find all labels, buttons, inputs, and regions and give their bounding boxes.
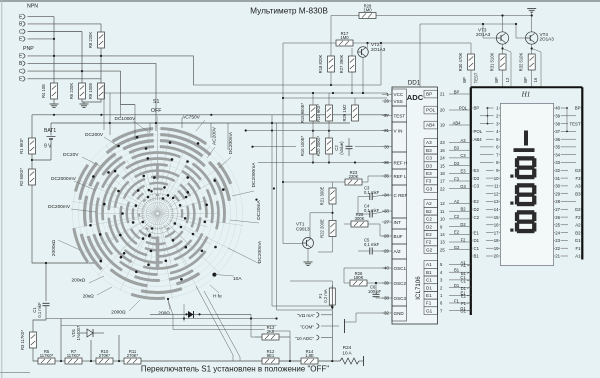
svg-text:D1: D1 bbox=[454, 283, 460, 288]
border frame left bbox=[1, 0, 3, 378]
wire C1 bottom bbox=[33, 306, 46, 332]
border frame top bbox=[0, 0, 600, 2]
svg-text:B1: B1 bbox=[454, 268, 460, 273]
svg-text:19: 19 bbox=[440, 123, 445, 128]
resistor R7 bbox=[65, 358, 82, 364]
wire F1 bottom bbox=[331, 305, 333, 361]
display H1 outline bbox=[471, 86, 583, 88]
svg-text:D2: D2 bbox=[460, 222, 466, 227]
wire B vertical bbox=[100, 24, 102, 32]
wire ref36 bbox=[258, 162, 387, 164]
svg-text:B3: B3 bbox=[426, 148, 432, 153]
svg-text:INT: INT bbox=[394, 220, 402, 225]
svg-text:E1: E1 bbox=[474, 230, 480, 235]
wire mid mids bbox=[312, 121, 314, 138]
svg-text:35: 35 bbox=[555, 145, 560, 150]
svg-text:R32 510K: R32 510K bbox=[519, 52, 524, 71]
svg-text:E2: E2 bbox=[426, 232, 432, 237]
svg-text:H1: H1 bbox=[521, 91, 531, 99]
svg-text:F3: F3 bbox=[426, 179, 432, 184]
resistor R28 bbox=[359, 13, 376, 19]
svg-text:BP: BP bbox=[523, 77, 528, 83]
svg-text:POL: POL bbox=[474, 129, 483, 134]
svg-text:D3: D3 bbox=[474, 176, 480, 181]
svg-text:E3: E3 bbox=[426, 171, 432, 176]
svg-text:16: 16 bbox=[440, 148, 445, 153]
svg-text:A3: A3 bbox=[460, 138, 466, 143]
svg-text:F2: F2 bbox=[575, 215, 581, 220]
svg-text:G3: G3 bbox=[575, 168, 581, 173]
svg-text:D3: D3 bbox=[426, 163, 432, 168]
resistor R32 bbox=[528, 54, 535, 70]
svg-text:VSS: VSS bbox=[394, 99, 403, 104]
svg-text:BAT1: BAT1 bbox=[44, 128, 56, 134]
svg-text:E2: E2 bbox=[454, 230, 460, 235]
svg-text:20: 20 bbox=[440, 108, 445, 113]
svg-text:A1: A1 bbox=[426, 262, 432, 267]
svg-text:C: C bbox=[19, 69, 23, 75]
svg-text:A1: A1 bbox=[461, 263, 467, 268]
svg-text:17: 17 bbox=[440, 179, 445, 184]
wire feeder bbox=[103, 85, 105, 130]
svg-text:TEST: TEST bbox=[394, 113, 406, 118]
svg-text:A3: A3 bbox=[426, 140, 432, 145]
svg-text:R31 510K: R31 510K bbox=[490, 52, 495, 71]
svg-text:F3: F3 bbox=[454, 176, 460, 181]
resistor R2 bbox=[29, 169, 36, 185]
svg-text:21: 21 bbox=[555, 254, 560, 259]
svg-text:R29 1M2: R29 1M2 bbox=[342, 104, 347, 122]
svg-text:G2: G2 bbox=[426, 247, 433, 252]
svg-text:R1 9K0*: R1 9K0* bbox=[19, 138, 24, 154]
resistor R5 bbox=[38, 358, 55, 364]
svg-text:R4 10E: R4 10E bbox=[41, 84, 46, 98]
svg-text:2K0: 2K0 bbox=[267, 329, 275, 334]
svg-text:2О1А3: 2О1А3 bbox=[476, 32, 491, 37]
svg-text:D1: D1 bbox=[426, 285, 432, 290]
svg-text:19: 19 bbox=[494, 246, 499, 251]
svg-text:31: 31 bbox=[555, 176, 560, 181]
wire feeder bbox=[210, 123, 212, 138]
wire bundle vertical bbox=[271, 115, 273, 306]
svg-text:DC200mA: DC200mA bbox=[257, 240, 263, 263]
svg-text:OSC2: OSC2 bbox=[394, 281, 407, 286]
svg-text:D1: D1 bbox=[474, 238, 480, 243]
svg-text:Переключатель S1 установлен в: Переключатель S1 установлен в положение … bbox=[141, 365, 329, 374]
svg-text:10: 10 bbox=[440, 217, 445, 222]
IC left column boxes bbox=[392, 89, 407, 106]
svg-text:TEST: TEST bbox=[570, 121, 581, 126]
svg-text:270K*: 270K* bbox=[99, 353, 111, 358]
svg-text:11: 11 bbox=[440, 209, 445, 214]
svg-text:BUF: BUF bbox=[394, 234, 403, 239]
svg-text:BP: BP bbox=[454, 89, 460, 94]
resistor R29 bbox=[352, 105, 359, 121]
svg-text:R30 470K: R30 470K bbox=[458, 52, 463, 71]
wire C vertical bbox=[81, 32, 83, 84]
svg-text:AC200V: AC200V bbox=[212, 126, 218, 145]
svg-text:B3: B3 bbox=[454, 146, 460, 151]
wire R11 right bbox=[141, 360, 262, 362]
wire R14-R24 bbox=[318, 360, 340, 362]
svg-text:DC20mA: DC20mA bbox=[256, 199, 262, 219]
switch track outlines bbox=[133, 189, 182, 238]
transistor VT2 bbox=[358, 47, 369, 58]
svg-text:15: 15 bbox=[440, 163, 445, 168]
svg-text:A2: A2 bbox=[575, 223, 581, 228]
svg-text:D3: D3 bbox=[454, 161, 460, 166]
svg-text:B2: B2 bbox=[575, 230, 581, 235]
svg-text:220K: 220K bbox=[349, 174, 359, 179]
svg-text:1M0: 1M0 bbox=[340, 35, 349, 40]
resistor R15 bbox=[310, 105, 317, 121]
wire R22 bottom bbox=[318, 237, 333, 253]
svg-text:S1: S1 bbox=[153, 99, 159, 105]
svg-text:36: 36 bbox=[555, 137, 560, 142]
border frame bottom stub bbox=[0, 372, 30, 374]
svg-text:13: 13 bbox=[494, 199, 499, 204]
wire R31 bottom bbox=[502, 70, 504, 87]
wire feeder bbox=[181, 118, 183, 128]
wire rail y85 bbox=[194, 84, 382, 86]
resistor R6 bbox=[79, 83, 86, 99]
svg-text:38: 38 bbox=[555, 121, 560, 126]
svg-text:G1: G1 bbox=[426, 308, 433, 313]
wire R17 row bbox=[283, 42, 336, 44]
wire pin12 drop bbox=[503, 49, 512, 88]
svg-text:(Value): (Value) bbox=[339, 141, 344, 155]
svg-text:E3: E3 bbox=[460, 169, 466, 174]
wire vin30 bbox=[355, 146, 387, 148]
wire E common vertical bbox=[53, 17, 55, 83]
svg-text:117K0*: 117K0* bbox=[67, 353, 81, 358]
ground under R4 bbox=[50, 103, 59, 105]
wire R18 R27 bottoms bbox=[330, 72, 332, 85]
resistor R16 bbox=[310, 138, 317, 154]
switch hub bbox=[159, 213, 169, 215]
svg-text:R16 100E*: R16 100E* bbox=[300, 136, 305, 157]
svg-text:DC2000mV: DC2000mV bbox=[51, 176, 77, 182]
svg-text:2О1А3: 2О1А3 bbox=[371, 47, 386, 52]
svg-text:11: 11 bbox=[494, 184, 499, 189]
wire VT2 bbox=[367, 43, 369, 48]
svg-text:G1: G1 bbox=[575, 238, 581, 243]
wire VT4 base bbox=[516, 24, 526, 38]
svg-text:2000Ω: 2000Ω bbox=[111, 310, 126, 316]
wires DD1 to H1 bus bbox=[449, 93, 471, 95]
resistor R25 bbox=[351, 221, 368, 227]
svg-text:E3: E3 bbox=[474, 168, 480, 173]
resistor R12 bbox=[262, 358, 279, 364]
svg-text:AB4: AB4 bbox=[474, 137, 483, 142]
svg-text:30: 30 bbox=[555, 184, 560, 189]
wire feeder bbox=[149, 123, 151, 132]
svg-text:R27 390K: R27 390K bbox=[339, 54, 344, 73]
resistor R30 bbox=[468, 54, 475, 70]
wire F1 top bbox=[290, 280, 332, 282]
wire GND pin bbox=[345, 313, 387, 322]
transistor VT1 bbox=[303, 238, 314, 249]
wire VT4 top bbox=[531, 16, 533, 32]
svg-text:R18 820K: R18 820K bbox=[318, 54, 323, 73]
wire vin31 bbox=[246, 130, 387, 132]
svg-text:DC200V: DC200V bbox=[85, 132, 104, 138]
wire PNP E vertical bbox=[193, 56, 195, 85]
wire contact drop bbox=[168, 300, 265, 330]
svg-text:C3: C3 bbox=[426, 156, 432, 161]
svg-text:2О1А3: 2О1А3 bbox=[540, 37, 555, 42]
IC right pin boxes bbox=[424, 90, 438, 98]
svg-text:22: 22 bbox=[555, 246, 560, 251]
svg-text:DC1000V: DC1000V bbox=[115, 116, 137, 122]
wire R1 R2 bbox=[31, 154, 33, 169]
svg-text:9 V: 9 V bbox=[44, 144, 52, 150]
svg-text:14: 14 bbox=[440, 232, 445, 237]
svg-text:G3: G3 bbox=[426, 186, 433, 191]
resistor R11 bbox=[124, 358, 141, 364]
switch rotor bar down bbox=[156, 237, 160, 268]
resistor R26 bbox=[350, 280, 367, 286]
svg-text:REF H: REF H bbox=[394, 160, 408, 165]
svg-text:12: 12 bbox=[494, 191, 499, 196]
wire rail y93 bbox=[104, 92, 387, 94]
svg-text:GND: GND bbox=[394, 311, 405, 316]
wire R27 top bbox=[351, 48, 353, 56]
svg-text:C2: C2 bbox=[474, 215, 480, 220]
wire VT3 base bbox=[483, 24, 496, 38]
wire VCC entry bbox=[386, 93, 388, 94]
svg-text:BP: BP bbox=[462, 77, 467, 83]
svg-text:D2: D2 bbox=[474, 207, 480, 212]
svg-text:C1: C1 bbox=[474, 246, 480, 251]
svg-text:G1: G1 bbox=[460, 309, 466, 314]
svg-text:23: 23 bbox=[440, 140, 445, 145]
svg-text:"VΩ mA": "VΩ mA" bbox=[297, 313, 315, 318]
wire VT4 emitter bbox=[531, 44, 533, 54]
wire bundle h1 bbox=[46, 318, 277, 320]
svg-text:300K: 300K bbox=[355, 216, 365, 221]
svg-text:V IN: V IN bbox=[394, 128, 403, 133]
wire feeder bbox=[120, 105, 122, 119]
switch rotor bar up bbox=[156, 166, 159, 180]
svg-text:E1: E1 bbox=[426, 293, 432, 298]
svg-text:NPN: NPN bbox=[27, 4, 38, 10]
svg-text:9E1: 9E1 bbox=[267, 353, 275, 358]
svg-text:A3: A3 bbox=[575, 184, 581, 189]
svg-text:R9 100E: R9 100E bbox=[88, 83, 93, 100]
resistor R23 bbox=[345, 179, 362, 185]
switch label leaders bbox=[133, 121, 150, 133]
wire left vertical x32 bbox=[31, 115, 33, 138]
svg-text:R3 117K0*: R3 117K0* bbox=[20, 330, 25, 350]
svg-text:15: 15 bbox=[494, 215, 499, 220]
svg-text:16: 16 bbox=[533, 77, 538, 82]
svg-text:22: 22 bbox=[440, 186, 445, 191]
wire PNP B vertical bbox=[155, 63, 157, 131]
svg-text:37: 37 bbox=[555, 129, 560, 134]
resistor R17 bbox=[336, 40, 353, 46]
svg-text:12: 12 bbox=[505, 77, 510, 82]
switch radial spokes bbox=[171, 213, 220, 215]
wire R12-R14 bbox=[279, 360, 301, 362]
svg-text:F1: F1 bbox=[461, 301, 467, 306]
bundle dots bbox=[271, 122, 273, 124]
wire pin16 drop bbox=[532, 49, 541, 88]
svg-text:13: 13 bbox=[440, 240, 445, 245]
wire R2 down bbox=[32, 185, 95, 263]
wire R7-R10 bbox=[82, 360, 96, 362]
svg-text:PNP: PNP bbox=[23, 46, 34, 52]
svg-text:AB4: AB4 bbox=[453, 120, 461, 125]
svg-text:20кΩ: 20кΩ bbox=[83, 294, 94, 300]
wire R8 bottom bbox=[100, 48, 102, 83]
svg-text:39: 39 bbox=[555, 114, 560, 119]
svg-text:1N4007: 1N4007 bbox=[76, 325, 81, 340]
svg-text:BP: BP bbox=[494, 77, 499, 83]
svg-text:DD1: DD1 bbox=[408, 80, 421, 87]
svg-text:"COM": "COM" bbox=[300, 325, 314, 330]
display digit 8c bbox=[517, 210, 535, 214]
svg-text:10 A: 10 A bbox=[342, 351, 352, 356]
resistor R10 bbox=[96, 358, 113, 364]
svg-text:OSC3: OSC3 bbox=[394, 296, 407, 301]
wire x46 branch bbox=[45, 263, 47, 301]
svg-text:28: 28 bbox=[555, 199, 560, 204]
svg-text:DC20V: DC20V bbox=[63, 152, 79, 158]
svg-text:A2: A2 bbox=[426, 201, 432, 206]
svg-text:0,1 mkF: 0,1 mkF bbox=[37, 302, 42, 318]
svg-text:40: 40 bbox=[555, 106, 560, 111]
svg-text:D2: D2 bbox=[426, 224, 432, 229]
svg-text:2000кΩ: 2000кΩ bbox=[51, 239, 57, 256]
wire diag2 bbox=[204, 291, 240, 361]
svg-text:C1: C1 bbox=[461, 278, 467, 283]
svg-text:0,1 mkF: 0,1 mkF bbox=[364, 242, 380, 247]
wire mid bottoms bbox=[312, 154, 314, 163]
svg-text:DC200mA: DC200mA bbox=[228, 131, 234, 154]
svg-text:1M0: 1M0 bbox=[363, 8, 372, 13]
svg-text:OSC1: OSC1 bbox=[394, 266, 407, 271]
svg-text:C3: C3 bbox=[474, 184, 480, 189]
svg-text:F3: F3 bbox=[575, 176, 581, 181]
wire R3 bottom bbox=[33, 348, 38, 361]
svg-text:117K0*: 117K0* bbox=[40, 353, 54, 358]
svg-text:F2: F2 bbox=[461, 237, 467, 242]
svg-text:10: 10 bbox=[494, 176, 499, 181]
display digit 8b bbox=[517, 183, 535, 187]
wire bundle h2 bbox=[272, 305, 332, 307]
resistor R13 bbox=[262, 334, 279, 340]
wire VT3 jog bbox=[502, 16, 504, 32]
wire VT1 bbox=[283, 243, 303, 245]
svg-text:TEST: TEST bbox=[474, 72, 479, 83]
svg-text:E1: E1 bbox=[461, 293, 467, 298]
svg-text:BP: BP bbox=[474, 106, 480, 111]
svg-text:DC2000mA: DC2000mA bbox=[251, 162, 257, 188]
svg-text:R22 200E: R22 200E bbox=[320, 219, 325, 238]
resistor R24 bbox=[340, 358, 359, 364]
resistor R18 bbox=[328, 56, 335, 72]
svg-text:25: 25 bbox=[555, 223, 560, 228]
display inner box bbox=[500, 104, 553, 266]
svg-text:14: 14 bbox=[494, 207, 499, 212]
svg-text:C2: C2 bbox=[454, 214, 460, 219]
svg-text:10A: 10A bbox=[233, 276, 242, 282]
svg-text:D1: D1 bbox=[461, 286, 467, 291]
svg-text:12: 12 bbox=[440, 201, 445, 206]
svg-text:18: 18 bbox=[440, 171, 445, 176]
wire R10-R11 bbox=[113, 360, 124, 362]
display digit 1 bbox=[524, 131, 528, 146]
svg-text:Мультиметр М-830В: Мультиметр М-830В bbox=[250, 6, 328, 16]
svg-text:R21 300E: R21 300E bbox=[320, 186, 325, 205]
svg-text:B1: B1 bbox=[426, 270, 432, 275]
svg-text:R15 900E*: R15 900E* bbox=[300, 103, 305, 124]
wire mid tops bbox=[312, 93, 314, 105]
svg-text:G2: G2 bbox=[454, 245, 460, 250]
wire VT3 emitter bbox=[502, 44, 504, 54]
svg-text:32: 32 bbox=[555, 168, 560, 173]
svg-text:DC200mV: DC200mV bbox=[48, 204, 71, 210]
svg-text:"10 ADC": "10 ADC" bbox=[295, 336, 314, 341]
svg-text:33: 33 bbox=[555, 160, 560, 165]
svg-text:AB4: AB4 bbox=[426, 123, 435, 128]
wire vss bbox=[283, 97, 387, 99]
svg-text:POL: POL bbox=[426, 108, 436, 113]
svg-text:R20 20K0*: R20 20K0* bbox=[316, 136, 321, 157]
svg-text:R24: R24 bbox=[343, 345, 352, 350]
wire bundle vertical bbox=[276, 123, 278, 310]
wire R30 top bbox=[470, 43, 472, 54]
resistor R27 bbox=[349, 56, 356, 72]
svg-text:23: 23 bbox=[555, 238, 560, 243]
svg-text:F1: F1 bbox=[426, 301, 432, 306]
svg-text:G3: G3 bbox=[460, 184, 466, 189]
resistor R3 bbox=[30, 332, 37, 348]
svg-text:A2: A2 bbox=[454, 199, 460, 204]
svg-text:AC750V: AC750V bbox=[182, 115, 201, 121]
svg-text:18: 18 bbox=[494, 238, 499, 243]
svg-text:A/Z: A/Z bbox=[394, 249, 401, 254]
wire R24 jack bbox=[359, 360, 364, 362]
wire R4 gnd bbox=[53, 99, 55, 104]
svg-text:1,8E: 1,8E bbox=[305, 353, 314, 358]
switch inner circles bbox=[142, 198, 173, 229]
svg-text:ADC: ADC bbox=[407, 93, 424, 102]
svg-text:24: 24 bbox=[555, 230, 560, 235]
svg-text:21: 21 bbox=[440, 92, 445, 97]
switch contact arcs bbox=[160, 129, 206, 144]
svg-text:POL: POL bbox=[459, 105, 468, 110]
svg-text:B1: B1 bbox=[474, 254, 480, 259]
wire R21 bbox=[332, 182, 334, 188]
svg-text:BP: BP bbox=[575, 106, 581, 111]
svg-text:C REF: C REF bbox=[394, 193, 408, 198]
wire R30 bottom bbox=[470, 70, 472, 87]
ground VT1 bbox=[304, 261, 313, 263]
svg-text:200кΩ: 200кΩ bbox=[72, 278, 86, 284]
resistor R20 bbox=[326, 138, 333, 154]
svg-text:R2 90K0*: R2 90K0* bbox=[19, 168, 24, 186]
svg-text:20: 20 bbox=[494, 254, 499, 259]
svg-text:B2: B2 bbox=[460, 207, 466, 212]
wire feeder bbox=[109, 93, 111, 135]
svg-text:OFF: OFF bbox=[151, 108, 161, 114]
wire PNP C vertical bbox=[121, 71, 135, 104]
svg-text:F1: F1 bbox=[454, 298, 460, 303]
transistor VT4 bbox=[526, 32, 538, 44]
svg-text:C1: C1 bbox=[426, 278, 432, 283]
